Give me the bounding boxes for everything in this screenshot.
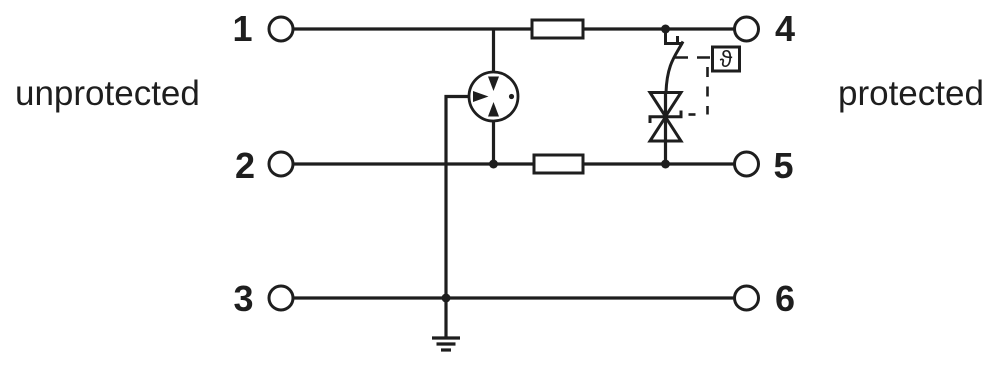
lower diode triangle [650, 117, 681, 141]
wire: line 1 down to gas discharge tube F1 top electrode [492, 29, 495, 77]
switch blade [666, 42, 683, 93]
svg-text:6: 6 [775, 278, 795, 319]
resistor R2 [534, 155, 583, 173]
bottom electrode arrow [488, 102, 499, 117]
svg-text:ϑ: ϑ [720, 46, 733, 72]
gas-filled indicator dot [509, 94, 514, 99]
junction: GDT / line 2 [489, 160, 498, 169]
svg-text:protected: protected [838, 74, 984, 113]
junction: ground drop / line 3 [442, 294, 451, 303]
terminal 6 [735, 286, 759, 310]
svg-text:unprotected: unprotected [15, 74, 200, 113]
thermal disconnect switch [666, 29, 684, 93]
contact stub [676, 36, 679, 44]
gas discharge tube F1 (3-electrode arrester) [469, 72, 518, 121]
thermal coupling dashed link [675, 58, 712, 115]
wire: terminal 2 to resistor R2 [294, 162, 534, 165]
resistor R1 [532, 20, 583, 38]
terminal 1 [269, 17, 293, 41]
svg-text:4: 4 [775, 8, 795, 49]
wire: ground drop below line 3 [444, 298, 447, 338]
zener middle bar [650, 111, 681, 124]
junction: line 1 / disconnector [661, 25, 670, 34]
terminal 3 [269, 286, 293, 310]
svg-text:1: 1 [232, 8, 252, 49]
dashed link: blade to temperature sensor [675, 56, 712, 59]
temperature sensor box [713, 47, 740, 71]
junction: diode / line 2 [661, 160, 670, 169]
terminal 5 [735, 152, 759, 176]
wire: terminal 3 to terminal 6 [294, 296, 734, 299]
suppressor diode V1 (bidirectional) [650, 93, 681, 142]
terminal 4 [735, 17, 759, 41]
fixed contact step [666, 29, 684, 44]
dashed link: vertical drop [706, 58, 709, 115]
wire: resistor R2 to terminal 5 [583, 162, 734, 165]
svg-text:5: 5 [774, 145, 794, 186]
upper diode triangle [650, 93, 681, 117]
side electrode arrow [473, 91, 489, 102]
wire: gas discharge tube F1 bottom electrode down to line 2 [492, 117, 495, 164]
wire: through suppressor diode down to line 2 [664, 93, 667, 165]
wire: resistor R1 to terminal 4 [583, 27, 734, 30]
wire: terminal 1 to resistor R1 [294, 27, 532, 30]
ground [432, 338, 460, 350]
svg-text:3: 3 [233, 278, 253, 319]
svg-text:2: 2 [235, 145, 255, 186]
top electrode arrow [488, 77, 499, 92]
wire: gas discharge tube F1 third electrode to ground drop [446, 97, 473, 299]
dashed link: to diode [689, 113, 696, 116]
terminal 2 [269, 152, 293, 176]
